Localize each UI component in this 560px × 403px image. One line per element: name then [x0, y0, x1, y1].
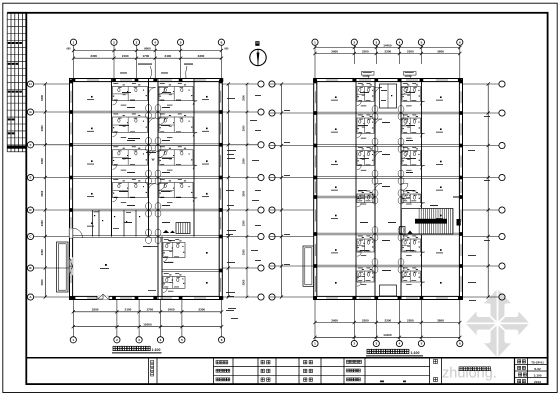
svg-text:3300: 3300	[242, 220, 246, 226]
svg-text:600: 600	[67, 48, 72, 51]
svg-text:3300: 3300	[40, 249, 44, 255]
svg-text:2200: 2200	[362, 318, 369, 322]
svg-text:2400: 2400	[165, 54, 172, 58]
svg-text:1:100: 1:100	[411, 351, 420, 355]
svg-text:3800: 3800	[437, 318, 444, 322]
svg-text:3300: 3300	[40, 220, 44, 226]
svg-text:2300: 2300	[385, 49, 392, 53]
svg-text:3300: 3300	[40, 190, 44, 196]
svg-text:3300: 3300	[198, 54, 205, 58]
svg-text:3900: 3900	[331, 318, 338, 322]
svg-text:3300: 3300	[242, 158, 246, 164]
svg-text:2013: 2013	[534, 380, 541, 384]
svg-text:S-02: S-02	[534, 367, 541, 371]
svg-text:3300: 3300	[242, 279, 246, 285]
svg-text:1700: 1700	[146, 308, 153, 312]
svg-text:3300: 3300	[90, 54, 97, 58]
svg-text:3300: 3300	[198, 308, 205, 312]
svg-text:TS-GP-01: TS-GP-01	[531, 360, 544, 364]
svg-text:600: 600	[224, 48, 229, 51]
svg-text:3900: 3900	[331, 49, 338, 53]
svg-text:2200: 2200	[407, 49, 414, 53]
svg-text:2100: 2100	[122, 54, 129, 58]
svg-text:F: F	[30, 143, 32, 147]
svg-text:3300: 3300	[40, 125, 44, 131]
svg-text:1:100: 1:100	[152, 348, 161, 352]
svg-text:2200: 2200	[407, 318, 414, 322]
svg-text:E: E	[29, 176, 31, 180]
svg-text:H: H	[29, 82, 31, 86]
svg-text:3300: 3300	[92, 308, 99, 312]
svg-text:2400: 2400	[168, 308, 175, 312]
svg-text:3300: 3300	[242, 125, 246, 131]
svg-text:2200: 2200	[362, 49, 369, 53]
svg-text:9000: 9000	[144, 47, 151, 51]
svg-text:1700: 1700	[143, 54, 150, 58]
svg-text:3300: 3300	[40, 158, 44, 164]
svg-text:2300: 2300	[385, 318, 392, 322]
svg-text:14400: 14400	[383, 43, 392, 47]
svg-text:14400: 14400	[383, 333, 392, 337]
svg-text:3300: 3300	[242, 190, 246, 196]
svg-text:3300: 3300	[40, 279, 44, 285]
svg-text:3300: 3300	[40, 95, 44, 101]
svg-text:2100: 2100	[125, 308, 132, 312]
svg-text:3800: 3800	[437, 49, 444, 53]
svg-text:15000: 15000	[143, 323, 152, 327]
svg-text:1:100: 1:100	[534, 374, 542, 378]
svg-text:3300: 3300	[242, 95, 246, 101]
svg-text:W: W	[152, 158, 155, 162]
svg-text:3300: 3300	[242, 249, 246, 255]
